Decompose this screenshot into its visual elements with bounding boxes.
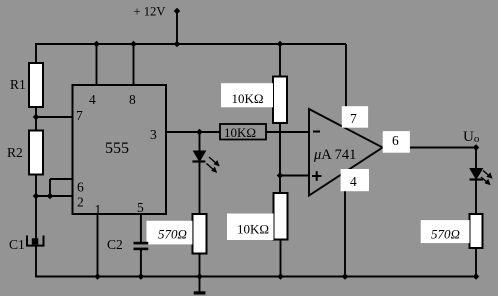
wire op-amp pin 4 to ground — [344, 170, 346, 277]
wire R5 top lead — [279, 44, 281, 77]
wire R2 bottom lead — [35, 175, 37, 198]
node +12V junction dot — [174, 8, 181, 15]
svg-text:555: 555 — [105, 140, 129, 157]
node R5 rail junction dot — [277, 41, 284, 48]
capacitor C1 bottom plate (bracket) — [27, 236, 44, 246]
pin 4 label box — [341, 169, 369, 191]
wire LED D1 top lead — [199, 132, 201, 152]
node R1-R2 junction dot — [33, 114, 40, 121]
diode D2 LED emission arrows — [481, 171, 493, 186]
diode D1 LED triangle — [194, 151, 206, 161]
node R7 ground junction dot — [473, 273, 480, 280]
svg-text:570Ω: 570Ω — [158, 226, 187, 241]
op-amp minus input sign — [313, 131, 320, 133]
resistor R1 — [29, 63, 43, 107]
wire divider middle — [279, 123, 281, 194]
wire bottom ground rail — [35, 276, 477, 278]
node pin8 rail junction dot — [130, 41, 137, 48]
svg-text:4: 4 — [350, 174, 357, 189]
svg-text:6: 6 — [392, 133, 399, 148]
pin 6 label box — [383, 131, 410, 153]
node pin6 branch junction dot — [47, 193, 54, 200]
svg-text:7: 7 — [76, 108, 83, 123]
node output junction dot — [473, 144, 480, 151]
wire pin 5 to C2 — [140, 214, 142, 243]
svg-text:10KΩ: 10KΩ — [224, 125, 256, 140]
svg-text:6: 6 — [77, 180, 84, 195]
node pin4 rail junction dot — [93, 41, 100, 48]
svg-text:μA 741: μA 741 — [313, 147, 356, 163]
diode D1 LED emission arrows — [207, 157, 220, 173]
svg-text:R2: R2 — [7, 145, 23, 160]
svg-text:+ 12V: + 12V — [134, 5, 166, 19]
wire to plus input — [280, 175, 310, 177]
wire top supply rail — [35, 43, 346, 45]
node R4 ground junction dot — [196, 273, 203, 280]
svg-text:5: 5 — [137, 200, 144, 215]
wire pin 1 to ground rail — [97, 214, 99, 277]
diode D2 LED triangle — [470, 169, 483, 180]
wire R3 to comparator minus input — [266, 131, 310, 133]
wire R7 bottom lead — [475, 248, 477, 277]
wire R6 bottom lead — [280, 240, 282, 277]
svg-text:3: 3 — [150, 127, 157, 142]
resistor R6 value label box — [227, 214, 274, 241]
svg-text:10KΩ: 10KΩ — [232, 91, 264, 106]
wire C1 top lead — [35, 196, 37, 239]
ground stub wire — [199, 277, 201, 293]
wire D1 to R4 — [199, 162, 201, 216]
svg-text:570Ω: 570Ω — [431, 226, 460, 241]
wire pin 8 to rail — [133, 44, 135, 85]
capacitor C1 top plate (solid square) — [32, 238, 39, 244]
resistor R4 570 ohm (mid) — [193, 214, 207, 254]
pin 7 label box — [342, 106, 368, 128]
svg-text:C2: C2 — [107, 237, 123, 252]
wire pin 7 to 555 — [36, 116, 73, 118]
wire op-amp output — [382, 147, 476, 149]
node divider midpoint junction dot — [277, 172, 284, 179]
svg-text:4: 4 — [89, 92, 96, 107]
wire rail corner down to op-amp pin 7 — [345, 44, 347, 112]
capacitor C2 bottom plate — [134, 248, 149, 251]
wire pin 4 to rail — [96, 44, 98, 85]
wire LED D2 top lead — [475, 148, 477, 170]
op-amp U1 triangle — [309, 109, 383, 196]
node pin1 ground junction dot — [94, 273, 101, 280]
node LED branch junction dot — [196, 129, 203, 136]
node C2 ground junction dot — [138, 273, 145, 280]
node pin4 ground junction dot — [342, 273, 349, 280]
wire D2 to R7 — [475, 180, 477, 216]
resistor R6 10K lower divider — [274, 193, 288, 240]
svg-text:10KΩ: 10KΩ — [237, 222, 269, 237]
node +12V rail junction dot — [174, 41, 181, 48]
resistor R3 10K series (horizontal) — [220, 124, 266, 140]
wire pin 3 output to resistor R3 — [166, 131, 220, 133]
node R2-C1 junction dot — [33, 193, 40, 200]
resistor R4 value label box — [147, 221, 193, 245]
svg-text:R1: R1 — [10, 77, 26, 92]
resistor R2 — [29, 131, 43, 175]
wire R4 bottom lead — [199, 254, 201, 277]
diode D2 LED cathode bar — [470, 178, 484, 180]
svg-text:2: 2 — [77, 195, 84, 210]
svg-text:8: 8 — [129, 92, 136, 107]
resistor R5 10K upper divider — [273, 77, 287, 124]
op-amp plus input sign — [312, 171, 322, 181]
diode D1 LED cathode bar — [192, 160, 205, 162]
node R6 ground junction dot — [277, 273, 284, 280]
svg-text:C1: C1 — [9, 237, 25, 252]
wire C1 bottom lead — [35, 246, 37, 278]
timer IC U2 555 body — [73, 85, 167, 214]
wire R1-R2 link — [35, 107, 37, 131]
resistor R5 value label box — [221, 83, 273, 107]
wire pin 6 branch horizontal — [50, 178, 73, 180]
svg-text:7: 7 — [350, 111, 357, 126]
resistor R7 570 ohm (right) — [470, 214, 483, 248]
ground symbol — [194, 291, 206, 294]
wire R1 top lead — [35, 43, 37, 64]
capacitor C2 top plate — [134, 242, 149, 245]
wire C2 bottom lead — [140, 250, 142, 277]
wire pin 2 to 555 — [36, 195, 73, 197]
resistor R7 value label box — [421, 220, 470, 243]
wire +12V stub — [176, 11, 178, 44]
wire pin 6 branch vertical — [49, 179, 51, 196]
